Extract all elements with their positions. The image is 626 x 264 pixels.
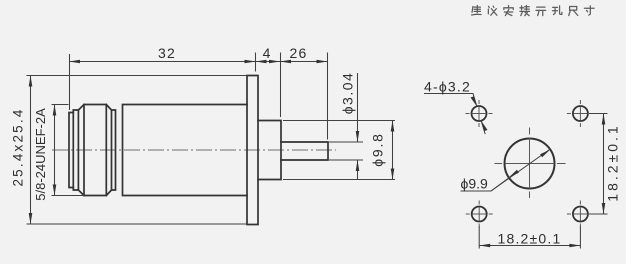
svg-text:25.4x25.4: 25.4x25.4 [11, 107, 26, 186]
svg-text:32: 32 [158, 45, 176, 61]
label 4-phi3.2 with leader [424, 94, 485, 135]
title: recommended mounting hole dimensions (Chinese) [472, 6, 595, 16]
svg-text:26: 26 [290, 45, 308, 61]
flange [247, 76, 258, 225]
svg-text:ϕ9.8: ϕ9.8 [370, 132, 386, 167]
main body cylinder [123, 105, 248, 196]
front ring 1 [69, 113, 73, 188]
center hole phi 9.9 [505, 139, 555, 189]
svg-text:ϕ3.04: ϕ3.04 [340, 72, 356, 115]
dimension phi 3.04 (pin) [329, 73, 363, 180]
rear boss [258, 121, 281, 180]
mounting hole bottom-left [472, 207, 487, 222]
svg-text:5/8-24UNEF-2A: 5/8-24UNEF-2A [33, 108, 48, 201]
mounting hole top-right [573, 106, 588, 121]
crosshair hole top-left [466, 100, 493, 127]
centerline of side view [52, 149, 336, 151]
mounting hole bottom-right [573, 207, 588, 222]
crosshair hole bottom-right [567, 201, 594, 228]
connector body outline (side view) [69, 76, 328, 225]
label phi 9.9 with diameter leader [461, 149, 551, 191]
svg-text:18.2±0.1: 18.2±0.1 [498, 231, 562, 247]
svg-text:4: 4 [263, 45, 271, 61]
crosshair hole top-right [567, 100, 594, 127]
thread dimension 5/8-24UNEF-2A [52, 105, 85, 196]
mounting hole top-left [472, 106, 487, 121]
threaded section 5/8-24UNEF [78, 105, 111, 196]
pin terminal [281, 142, 328, 160]
dimension 25.4x25.4 [27, 76, 248, 225]
ring 2 [73, 110, 78, 190]
ring 3 [112, 110, 116, 190]
right dimension 18.2 +/- 0.1 (vertical) [589, 114, 608, 215]
dimension phi 9.8 (boss) [283, 121, 395, 180]
crosshair hole bottom-left [466, 201, 493, 228]
svg-text:4-ϕ3.2: 4-ϕ3.2 [424, 79, 471, 95]
bottom dimension 18.2 +/- 0.1 [479, 227, 580, 249]
crosshair center hole [495, 128, 566, 199]
svg-text:ϕ9.9: ϕ9.9 [461, 176, 489, 192]
dimension 32 [69, 53, 328, 140]
svg-text:18.2±0.1: 18.2±0.1 [605, 123, 621, 201]
